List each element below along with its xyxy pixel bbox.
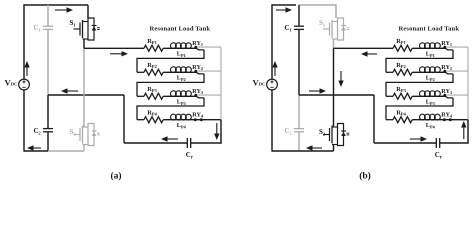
inductor Lp4 (b)	[420, 114, 426, 120]
current arrow on tank bottom (b)	[410, 138, 422, 140]
resistor Rp4 (a)	[137, 119, 144, 121]
wire: branch 1 (a)	[163, 48, 204, 50]
capacitor Cr (b)	[435, 138, 437, 148]
wire: relay RY1 open link to rail (a)	[197, 46, 221, 48]
wire: bottom rail (a)	[24, 150, 48, 152]
capacitor C2 (a)	[47, 95, 49, 128]
wire: S1 source exit (b)	[333, 39, 335, 48]
source VDC (a)	[19, 79, 30, 90]
wire: S1 source exit (a)	[83, 39, 85, 48]
wire: left rail (a)	[23, 5, 25, 79]
current arrow on tank input (a)	[110, 53, 123, 55]
wire: series link branch 1 to 2 (a)	[137, 50, 204, 72]
current arrow on top rail (a)	[55, 9, 68, 11]
wire: series link branch 1 to 2 (b)	[386, 50, 453, 72]
wire: S2 source exit (a)	[83, 145, 85, 152]
wire: series link branch 3 to 4 (b)	[386, 98, 453, 120]
inductor Lp1 (a)	[171, 43, 177, 49]
wire: branch 1 (b)	[412, 48, 453, 50]
current arrow down to S2 (b)	[340, 71, 342, 82]
relay contact RY2 (b)	[443, 70, 446, 73]
current arrow up on left rail (b)	[274, 66, 276, 76]
wire: relay RY4 closed link to rail (a)	[200, 119, 222, 121]
current arrow on tank bottom (a)	[166, 138, 178, 140]
relay contact RY1 (b)	[443, 46, 446, 49]
wire: tank output rail active (a)	[220, 120, 222, 144]
wire: bottom rail inactive segment (a)	[48, 150, 84, 152]
wire: tank return vertical (b)	[373, 95, 375, 143]
wire: node to S2 drain (b)	[333, 48, 335, 127]
transistor S1 (b, inactive)	[338, 18, 344, 40]
wire: top rail (a)	[23, 4, 88, 6]
wire: top rail (b)	[271, 4, 296, 6]
wire: bottom rail (b)	[272, 150, 334, 152]
current arrow up on left rail (a)	[26, 66, 28, 76]
wire: branch 2 (a)	[163, 72, 204, 74]
wire: relay RY4 closed link to rail (b)	[449, 119, 469, 121]
source VDC (b)	[267, 79, 278, 90]
wire: top rail inactive segment to S1 (b)	[299, 5, 336, 18]
current arrow on midpoint wire (a)	[66, 90, 78, 92]
capacitor C1 (a, inactive)	[47, 5, 49, 26]
wire: branch 3 (a)	[163, 96, 204, 98]
wire: node to S2 drain (a)	[83, 48, 85, 127]
wire: series link branch 2 to 3 (a)	[137, 74, 204, 96]
svg-text:(a): (a)	[110, 170, 121, 181]
resistor Rp1 (a)	[144, 45, 163, 51]
resistor Rp1 (b)	[393, 45, 412, 51]
wire: branch 4 (a)	[163, 119, 201, 121]
resistor Rp4 (b)	[386, 119, 393, 121]
current arrow on midpoint wire (b)	[309, 90, 321, 92]
current arrow on bottom rail (a)	[32, 147, 41, 149]
wire: branch 3 (b)	[412, 96, 453, 98]
wire: half-bridge node to resonant tank (b)	[334, 47, 394, 49]
wire: series link branch 2 to 3 (b)	[386, 74, 453, 96]
relay contact RY4 (b)	[443, 118, 446, 121]
wire: midpoint to tank return (a)	[48, 94, 124, 96]
wire: tank bottom rail (a)	[124, 142, 187, 144]
capacitor Cr (a)	[186, 138, 188, 148]
relay contact RY4 (a)	[194, 118, 197, 121]
current arrow on top rail (b)	[276, 9, 287, 11]
current arrow on output rail (a)	[216, 123, 218, 135]
current arrow on output rail (b)	[463, 126, 465, 139]
wire: tank output rail active (b)	[467, 120, 469, 144]
resistor Rp3 (a)	[137, 95, 144, 97]
relay contact RY1 (a)	[194, 46, 197, 49]
wire: relay RY2 open link to rail (b)	[446, 70, 468, 72]
relay contact RY3 (b)	[443, 94, 446, 97]
relay contact RY3 (a)	[194, 94, 197, 97]
wire: half-bridge node to resonant tank (a)	[84, 47, 144, 49]
svg-text:Resonant Load Tank: Resonant Load Tank	[399, 26, 460, 33]
capacitor C1 (b)	[298, 5, 300, 26]
wire: midpoint to tank return (b)	[299, 94, 374, 96]
resistor Rp2 (a)	[137, 71, 144, 73]
wire: relay RY2 open link to rail (a)	[197, 70, 221, 72]
capacitor C2 (b, inactive)	[298, 95, 300, 128]
wire: tank bottom rail (b)	[374, 142, 436, 144]
wire: branch 4 (b)	[412, 119, 450, 121]
resistor Rp3 (b)	[386, 95, 393, 97]
wire: relay RY1 open link to rail (b)	[446, 46, 468, 48]
wire: series link branch 3 to 4 (a)	[137, 98, 204, 120]
transistor S1 (a)	[87, 5, 89, 18]
resistor Rp2 (b)	[386, 71, 393, 73]
inductor Lp3 (b)	[420, 91, 426, 97]
transistor S2 (a, inactive)	[88, 124, 94, 146]
transistor S2 (b)	[338, 124, 344, 146]
wire: tank return vertical (a)	[123, 95, 125, 143]
inductor Lp3 (a)	[171, 91, 177, 97]
svg-text:Resonant Load Tank: Resonant Load Tank	[150, 26, 211, 33]
wire: left rail (b)	[271, 5, 273, 79]
wire: tank output rail inactive segment (b)	[467, 47, 469, 120]
relay contact RY2 (a)	[194, 70, 197, 73]
wire: relay RY3 open link to rail (a)	[197, 94, 221, 96]
wire: tank output rail inactive segment (a)	[220, 47, 222, 120]
current arrow on bottom rail (b)	[311, 147, 322, 149]
inductor Lp1 (b)	[420, 43, 426, 49]
wire: relay RY3 open link to rail (b)	[446, 94, 468, 96]
wire: S2 source exit (b)	[333, 145, 335, 152]
wire: branch 2 (b)	[412, 72, 453, 74]
inductor Lp4 (a)	[171, 114, 177, 120]
inductor Lp2 (b)	[420, 67, 426, 73]
svg-text:(b): (b)	[359, 170, 371, 181]
inductor Lp2 (a)	[171, 67, 177, 73]
current arrow on tank input (b)	[366, 53, 377, 55]
